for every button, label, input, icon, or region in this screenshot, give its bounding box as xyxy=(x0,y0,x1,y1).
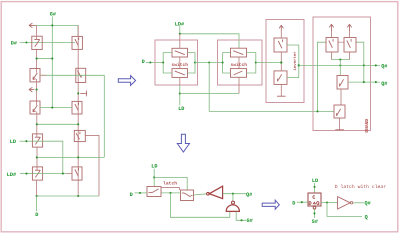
junction U2 in xyxy=(222,61,224,63)
junction D xyxy=(139,192,141,194)
wire Q9 to Q10 channel xyxy=(32,173,72,175)
switch SW1 xyxy=(147,187,161,197)
wire D input xyxy=(135,192,148,194)
junction G# on y107.6 xyxy=(51,107,53,109)
wire tap to nand xyxy=(209,63,334,112)
junction U2 out xyxy=(255,61,257,63)
svg-text:D: D xyxy=(35,212,38,218)
stem P1 bottom xyxy=(331,52,333,60)
transistor U3b xyxy=(274,71,287,85)
wire Q8 output xyxy=(85,135,99,196)
junction data node xyxy=(169,192,171,194)
arrow blue 1 xyxy=(118,76,135,86)
transistor U4 N2 xyxy=(334,105,345,118)
wire D stub xyxy=(36,196,38,211)
junction LD tee xyxy=(179,92,181,94)
port tee P3 xyxy=(80,91,86,97)
wire feedback down xyxy=(171,193,230,217)
wire LD# stub xyxy=(179,26,181,34)
transistor Q4 xyxy=(76,68,86,82)
pin stub Q3 right xyxy=(40,74,46,76)
clear bubble U5 xyxy=(313,206,316,209)
arrow blue 2 xyxy=(177,134,189,152)
junction stem A y89.6 xyxy=(36,89,38,91)
module U4 nand box xyxy=(313,17,371,131)
wire cross link y124.3 xyxy=(37,123,78,125)
module U3 inverter box xyxy=(266,20,304,103)
stem Q7-Q9 xyxy=(36,147,38,170)
junction G1 out xyxy=(232,193,234,195)
svg-text:D#: D# xyxy=(11,41,17,47)
wire nand chain left xyxy=(318,42,327,111)
svg-text:G#: G# xyxy=(50,11,56,17)
transistor U1a xyxy=(172,48,188,57)
wire feedback rail y157.4 xyxy=(37,156,105,158)
svg-text:D: D xyxy=(130,192,133,198)
wire N1 out xyxy=(348,81,380,83)
junction LD# tee xyxy=(179,33,181,35)
junction inverter in xyxy=(280,61,282,63)
wire P link to N1 xyxy=(339,60,341,76)
junction LD# xyxy=(25,173,27,175)
pin stub Q10 left xyxy=(66,173,72,175)
svg-text:S#: S# xyxy=(312,219,318,225)
wire Q4 output to node xyxy=(86,75,105,157)
wire node link vertical xyxy=(363,65,365,82)
wire P2 channel to node xyxy=(356,42,364,65)
wire U2 left bracket xyxy=(223,53,231,73)
junction nand B in xyxy=(316,110,318,112)
stem P2 top xyxy=(349,32,351,38)
gate stem Q1 xyxy=(36,25,38,39)
wire LD input xyxy=(20,140,33,142)
wire Q5 to Q6 channel y107.6 xyxy=(40,107,72,109)
junction y157.4 colB xyxy=(77,156,79,158)
wire U1 right bracket xyxy=(188,53,196,73)
junction D xyxy=(149,61,151,63)
stem N2 bottom xyxy=(339,118,341,130)
junction y157.4 left xyxy=(36,156,38,158)
junction inverter out xyxy=(298,64,300,66)
wire SW1 link red xyxy=(161,188,179,190)
wire G# vertical xyxy=(51,17,53,108)
stem Q5-Q7 xyxy=(36,112,38,138)
wire LD stub xyxy=(314,183,316,193)
transistor Q1 xyxy=(32,36,42,49)
stem Q9 bottom xyxy=(36,180,38,196)
port arrow P1 xyxy=(29,23,36,28)
stem P2 bottom xyxy=(349,52,351,60)
wire U3 right bracket xyxy=(287,45,299,78)
stem Q3-Q5 xyxy=(36,79,38,105)
transistor U3a xyxy=(274,38,287,52)
wire LD# rail xyxy=(180,34,239,48)
wire D# input xyxy=(20,42,76,44)
wire cross link y58.6 xyxy=(37,58,53,60)
stem N1-N2 xyxy=(340,89,342,105)
inverter G1 triangle xyxy=(209,186,222,198)
label U5 D xyxy=(309,202,311,205)
transistor U2a xyxy=(231,48,247,57)
junction out xyxy=(326,201,328,203)
svg-text:Q: Q xyxy=(365,215,368,221)
junction D xyxy=(301,201,303,203)
module U1 switch box xyxy=(155,40,198,85)
svg-text:LD: LD xyxy=(178,106,184,112)
transistor U4 P1 xyxy=(326,38,338,53)
transistor Q5 xyxy=(30,101,40,114)
transistor Q6 xyxy=(72,101,82,114)
transistor U4 N1 xyxy=(337,76,348,90)
junction U1 out xyxy=(194,61,196,63)
svg-text:Q#: Q# xyxy=(381,64,387,70)
junction P link xyxy=(339,59,341,61)
transistor U4 P2 xyxy=(344,38,356,53)
junction LD xyxy=(314,186,316,188)
svg-text:LD: LD xyxy=(312,178,318,184)
junction y196 colB xyxy=(77,195,79,197)
label U5 Q xyxy=(317,202,320,205)
wire U2 right bracket xyxy=(247,53,256,73)
junction G2 b xyxy=(240,219,242,221)
svg-text:latch: latch xyxy=(163,181,177,187)
inverter G3 triangle xyxy=(338,197,351,209)
wire bottom rail y196 xyxy=(37,195,99,197)
svg-text:DNAND: DNAND xyxy=(364,119,370,133)
port arrow up U4a xyxy=(329,24,333,31)
svg-text:LD: LD xyxy=(10,139,16,145)
junction LD tee xyxy=(153,176,155,178)
junction D# xyxy=(25,41,27,43)
svg-text:G#: G# xyxy=(247,218,253,224)
nand G2 bubble xyxy=(232,201,235,204)
stem Q1-Q3 xyxy=(36,50,38,73)
svg-text:LD#: LD# xyxy=(7,172,16,178)
wire SW2 out xyxy=(194,194,207,195)
junction U1 in xyxy=(162,61,164,63)
junction stem B y93.4 xyxy=(77,92,79,94)
junction on G# rail xyxy=(51,24,53,26)
wire U5 out xyxy=(321,202,338,204)
wire LD rail xyxy=(180,93,239,95)
stem U1 top xyxy=(179,34,181,49)
wire data node xyxy=(161,192,181,194)
wire D input xyxy=(146,62,163,64)
svg-text:Q#: Q# xyxy=(365,201,371,207)
inverter G3 bubble xyxy=(350,202,352,204)
transistor U2b xyxy=(231,69,247,78)
transistor Q2 xyxy=(72,36,82,49)
svg-text:Q#: Q# xyxy=(246,192,252,198)
latch U5 box xyxy=(308,193,321,206)
stem U2 mid xyxy=(238,57,240,69)
stem column B xyxy=(77,25,79,196)
transistor Q10 xyxy=(72,167,82,180)
junction y58.6 left xyxy=(36,58,38,60)
transistor Q8 xyxy=(74,130,85,141)
stem U2 bottom xyxy=(238,77,240,93)
junction y196 left xyxy=(36,195,38,197)
wire Q3 to Q4 channel y75.3 xyxy=(40,74,86,76)
junction clear xyxy=(313,212,315,214)
wire Q out xyxy=(327,203,362,217)
switch SW2 xyxy=(181,190,194,201)
clock mark U5 xyxy=(313,202,315,204)
stem U1 mid xyxy=(179,57,181,69)
wire Q7 out jog down xyxy=(43,141,63,173)
transistor Q3 xyxy=(30,69,40,82)
wire storage node xyxy=(299,64,380,66)
wire gate to node xyxy=(232,194,234,201)
wire D input xyxy=(297,201,308,203)
label U5 C xyxy=(313,196,315,199)
wire LD# input xyxy=(20,173,32,175)
wire U1-U2 xyxy=(195,62,223,64)
junction y124.3 left xyxy=(36,123,38,125)
svg-text:D: D xyxy=(292,200,295,206)
module U2 switch box xyxy=(218,40,263,85)
svg-text:Q#: Q# xyxy=(381,81,387,87)
stem P1 top xyxy=(331,32,333,38)
wire Q# out xyxy=(353,202,364,204)
junction LD xyxy=(25,140,27,142)
port arrow P2 xyxy=(29,87,35,92)
junction tap xyxy=(208,61,210,63)
ground bar U4 xyxy=(335,129,344,131)
stem U3 top xyxy=(280,31,282,38)
junction q stub xyxy=(375,81,377,83)
wire LD to SW2 xyxy=(154,177,187,190)
wire through Q7 xyxy=(32,140,42,142)
ground bar U3 xyxy=(277,95,286,97)
wire U2 to inverter xyxy=(256,62,281,64)
stem U3 bottom xyxy=(280,84,282,96)
wire LD stub xyxy=(153,169,155,187)
nand G2 body xyxy=(226,205,239,212)
junction N1 out xyxy=(363,81,365,83)
junction node b xyxy=(363,64,365,66)
junction node a xyxy=(339,64,341,66)
svg-text:inverter: inverter xyxy=(293,51,298,71)
wire P drain link xyxy=(332,59,350,61)
port arrow up U3 xyxy=(279,25,283,31)
wire gate rail y25.4 xyxy=(31,25,79,36)
junction y58.6 right xyxy=(51,58,53,60)
wire P1-P2 channel link xyxy=(338,41,344,43)
junction y124.3 right xyxy=(77,123,79,125)
wire U1 left bracket xyxy=(163,53,172,73)
transistor Q7 xyxy=(32,134,42,147)
wire G2 input b xyxy=(236,212,246,221)
arrow blue 3 xyxy=(262,200,279,209)
port arrow up U4b xyxy=(347,24,351,31)
junction jog on channel xyxy=(62,173,64,175)
junction node c xyxy=(375,64,377,66)
stem U1 bottom xyxy=(179,77,181,85)
transistor Q9 xyxy=(32,167,42,180)
inverter G1 bubble xyxy=(207,192,210,195)
wire clear stub xyxy=(314,209,316,218)
stem U3 mid xyxy=(280,52,282,71)
svg-text:D latch with clear: D latch with clear xyxy=(335,184,386,190)
wire G1 out xyxy=(223,193,246,195)
svg-text:D: D xyxy=(142,59,145,65)
transistor U1b xyxy=(172,69,188,78)
